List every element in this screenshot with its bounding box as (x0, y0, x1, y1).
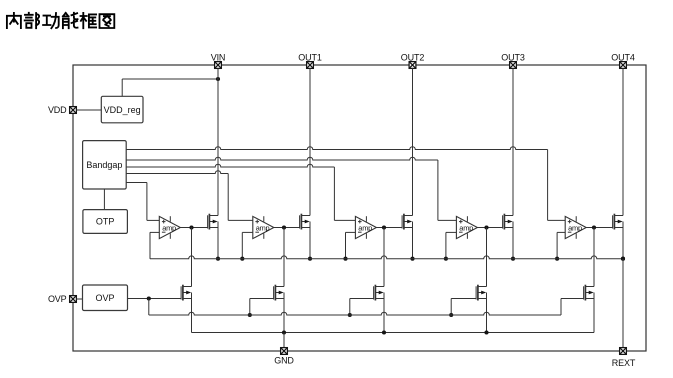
wire amp U4 output down to M9 drain (486, 228, 488, 287)
wire amp U2 feedback from - input to rail (242, 231, 253, 233)
svg-text:OUT2: OUT2 (401, 52, 425, 62)
wire amp U3 output down to M8 drain (383, 228, 385, 287)
wire VDD_reg to VIN net (121, 79, 123, 96)
wire M8 source down to GND rail (383, 293, 385, 333)
wire OUT1 net vertical to M2 drain (309, 68, 311, 215)
svg-text:OTP: OTP (96, 217, 115, 227)
svg-text:OUT4: OUT4 (611, 52, 635, 62)
wire: bandgap ref line 4 to amp2 + input (126, 171, 228, 174)
wire: bandgap ref line 1 to amp5 + input (126, 147, 547, 150)
wire M9 source down to GND rail (486, 293, 488, 333)
transistor M1 (208, 214, 218, 230)
transistor M9 (476, 285, 486, 301)
op-amp U5 (565, 216, 586, 239)
op-amp U3 (355, 216, 376, 239)
wire M3 source to rail (412, 222, 414, 259)
title text: 内部功能框图 (drawn strokes) (7, 13, 21, 28)
wire: bandgap ref line 5 to amp1 + input (126, 182, 147, 184)
block OTP U8 (83, 210, 128, 234)
wire M9 gate connection (451, 298, 476, 300)
node: feedback U2 on rail (240, 257, 244, 261)
wire M7 gate connection (250, 298, 274, 300)
svg-text:amp: amp (568, 223, 582, 232)
pin OUT1 (307, 62, 314, 69)
svg-text:GND: GND (274, 356, 294, 366)
svg-text:Bandgap: Bandgap (86, 160, 122, 170)
wire OUT2 net vertical to M3 drain (412, 68, 414, 215)
node: amp U1 output junction (189, 225, 193, 229)
wire amp U5 output to M5 gate (586, 227, 612, 229)
wire VDD pin to VDD_reg (77, 109, 102, 111)
wire M10 gate connection (561, 298, 584, 300)
svg-text:OUT3: OUT3 (501, 52, 525, 62)
transistor M2 (300, 214, 310, 230)
svg-text:OVP: OVP (95, 293, 114, 303)
wire: GND rail (192, 332, 595, 334)
wire M4 source to rail (512, 222, 514, 259)
wire GND rail down to GND pin (283, 333, 285, 352)
wire amp U5 output down to M10 drain (593, 228, 595, 287)
wire amp U4 feedback from - input to rail (446, 231, 457, 233)
transistor M6 (181, 285, 191, 301)
svg-text:VIN: VIN (211, 52, 226, 62)
wire: feedback/source rail (149, 232, 151, 258)
transistor M5 (613, 214, 623, 230)
node: M1 source on rail (216, 257, 220, 261)
op-amp U2 (253, 216, 274, 239)
wire OVP pin to OVP block (77, 298, 83, 300)
wire amp U3 feedback from - input to rail (346, 231, 356, 233)
wire M2 source to rail (309, 222, 311, 259)
node: gate tap on OVP rail (248, 313, 252, 317)
border frame (73, 65, 646, 351)
pin OUT4 (620, 62, 627, 69)
node: junction VDD_reg/VIN (216, 77, 220, 81)
svg-text:REXT: REXT (612, 358, 636, 368)
node: amp U5 output junction (592, 225, 596, 229)
svg-text:amp: amp (162, 223, 176, 232)
wire OUT3 net vertical to M4 drain (512, 68, 514, 215)
pin OUT2 (409, 62, 416, 69)
node: feedback U3 on rail (343, 257, 347, 261)
svg-text:amp: amp (358, 223, 372, 232)
wire: bandgap ref line 2 to amp4 + input (126, 157, 438, 160)
wire M7 source down to GND rail (283, 293, 285, 333)
wire VIN net vertical to M1 drain (217, 68, 219, 215)
wire OUT4 net vertical to M5 drain (622, 68, 624, 215)
wire amp U1 output to M1 gate (180, 227, 207, 229)
node: M4 source on rail (511, 257, 515, 261)
wire amp U1 output down to M6 drain (191, 228, 193, 287)
svg-text:VDD_reg: VDD_reg (104, 105, 141, 115)
svg-text:amp: amp (256, 223, 270, 232)
pin REXT (620, 348, 627, 355)
wire M1 source to rail (217, 222, 219, 259)
wire amp U5 feedback from - input to rail (557, 231, 565, 233)
node: source on GND rail (484, 330, 488, 334)
node: feedback U5 on rail (555, 257, 559, 261)
node: source on GND rail (382, 330, 386, 334)
transistor M7 (274, 285, 284, 301)
wire amp U2 output down to M7 drain (283, 228, 285, 287)
wire OVP block output to M6 gate (128, 298, 182, 300)
node: amp U3 output junction (382, 225, 386, 229)
wire M6 source down to GND rail (191, 293, 193, 333)
wire amp U3 output to M3 gate (376, 227, 402, 229)
block Bandgap U7 (83, 141, 127, 189)
node: feedback U4 on rail (444, 257, 448, 261)
node: M5 source on rail (621, 257, 625, 261)
node: M2 source on rail (308, 257, 312, 261)
pin OVP (70, 296, 77, 303)
wire Bandgap to OTP (103, 189, 105, 210)
node: rail to REXT junction (621, 257, 625, 261)
svg-text:OVP: OVP (48, 294, 67, 304)
wire rail down to REXT pin (622, 259, 624, 351)
node: OVP output junction (147, 296, 151, 300)
wire amp U2 output to M2 gate (274, 227, 300, 229)
pin VDD (70, 107, 77, 114)
wire M8 gate connection (350, 298, 374, 300)
wire M5 source to rail (622, 222, 624, 259)
svg-text:OUT1: OUT1 (298, 52, 322, 62)
wire amp U4 output to M4 gate (477, 227, 502, 229)
node: M3 source on rail (410, 257, 414, 261)
op-amp U4 (456, 216, 477, 239)
wire amp U1 feedback from - input to rail (150, 231, 159, 233)
block OVP U9 (83, 285, 128, 311)
wire M10 source down to GND rail (593, 293, 595, 333)
node: amp U2 output junction (282, 225, 286, 229)
node: source on GND rail (282, 330, 286, 334)
svg-text:VDD: VDD (48, 105, 67, 115)
transistor M4 (503, 214, 513, 230)
block VDD_reg U6 (101, 96, 143, 123)
node: amp U4 output junction (484, 225, 488, 229)
svg-text:amp: amp (459, 223, 473, 232)
wire: bandgap ref line 3 to amp3 + input (126, 164, 334, 167)
op-amp U1 (159, 216, 180, 239)
node: gate tap on OVP rail (348, 313, 352, 317)
transistor M8 (374, 285, 384, 301)
node: gate tap on OVP rail (449, 313, 453, 317)
transistor M10 (584, 285, 594, 301)
transistor M3 (402, 214, 412, 230)
wire: OVP rail (149, 312, 561, 315)
pin VIN (215, 62, 222, 69)
pin GND (281, 348, 288, 355)
wire OVP junction down to OVP rail (148, 299, 150, 316)
pin OUT3 (510, 62, 517, 69)
